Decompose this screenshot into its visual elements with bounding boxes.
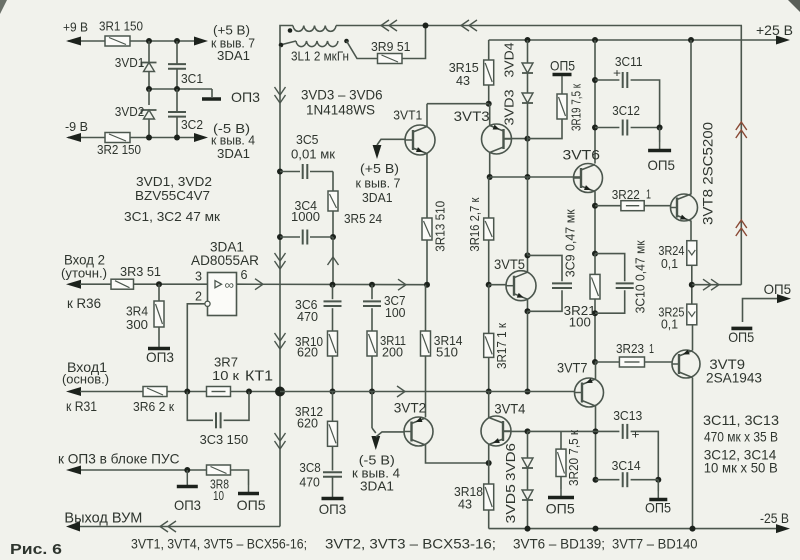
wire 3R17 leads [486, 285, 492, 395]
wire 3VD5 down [527, 500, 529, 529]
svg-text:к R36: к R36 [67, 295, 101, 311]
label OP3 under 3R4 [146, 349, 174, 365]
resistor 3R2 [105, 133, 130, 143]
wire 3R24 to out node [689, 265, 695, 304]
terminal arrow Vhod2 [66, 280, 81, 289]
svg-text:(основ.): (основ.) [62, 372, 109, 387]
wire 3VT5 emitter [525, 299, 531, 314]
label 3R22 [612, 187, 640, 202]
label 3C11 [615, 54, 643, 69]
label OP5 top [550, 58, 575, 74]
svg-text:3VT3: 3VT3 [454, 108, 490, 124]
wire mid node row [146, 86, 212, 92]
label 3R12 [295, 404, 323, 419]
resistor 3R12 [328, 421, 338, 446]
wire 3VT1 base to +5V [377, 139, 405, 145]
node 3C6 [330, 282, 336, 288]
wire zener column upper [148, 41, 150, 62]
wire 3VT3 emitter up [0, 0, 1, 1]
svg-text:43: 43 [458, 496, 472, 511]
diode 3VD4 [522, 63, 533, 73]
label 3R16 rot [467, 197, 482, 251]
svg-text:3VT2, 3VT3 – BCX53-16;: 3VT2, 3VT3 – BCX53-16; [325, 537, 496, 552]
label 3R6 2k [133, 399, 174, 414]
svg-text:3DA1: 3DA1 [217, 48, 250, 63]
svg-text:+9 В: +9 В [63, 20, 88, 35]
label k vyv 4 low [352, 466, 400, 481]
label 3C14 [612, 458, 641, 473]
label 3C8 [299, 460, 320, 475]
wire node to signal line [332, 237, 334, 285]
label OP5 under bar [728, 329, 754, 345]
wire bias row y177 [490, 176, 574, 178]
label 3R10 [295, 334, 323, 349]
wire node to 3R4 [158, 284, 160, 301]
transistor 3VT9 [672, 350, 700, 378]
svg-text:2SA1943: 2SA1943 [706, 370, 762, 386]
capacitor 3C5 [303, 164, 308, 179]
resistor 3R8 [207, 465, 231, 475]
svg-text:3VT2: 3VT2 [394, 400, 427, 416]
svg-text:3С5: 3С5 [296, 132, 319, 147]
wire 3VT7 collector [595, 362, 597, 379]
chevrons out vert 1 [736, 122, 747, 138]
svg-text:(уточн.): (уточн.) [61, 266, 107, 281]
svg-text:3VD2: 3VD2 [115, 104, 145, 119]
zener 3VD2 [142, 110, 157, 119]
wire 3C5 branch [280, 171, 333, 173]
wire x527 mid column [525, 177, 531, 395]
chevrons out vert 2 [736, 220, 747, 236]
resistor 3R3 [111, 279, 134, 289]
label (+5V) mid [360, 161, 399, 176]
label 3VT8 2SC5200 rot [701, 122, 716, 225]
svg-text:3VT1, 3VT4, 3VT5 – BCX56-16;: 3VT1, 3VT4, 3VT5 – BCX56-16; [131, 537, 307, 552]
svg-text:3R9 51: 3R9 51 [371, 39, 411, 54]
label 43 [456, 73, 470, 88]
label OP5 3C12 [648, 157, 676, 173]
svg-text:10 к: 10 к [212, 368, 239, 383]
label 10k [212, 368, 239, 383]
wire Vyhod VUM [80, 526, 280, 528]
wire 3R18 to bottom rail [488, 510, 490, 529]
wire 3R8 to gnd OP5 [231, 470, 249, 485]
svg-text:ОП5: ОП5 [728, 329, 754, 345]
svg-text:AD8055AR: AD8055AR [191, 252, 259, 268]
wire opamp output [237, 283, 426, 286]
wire node to 3R18 [488, 463, 490, 484]
svg-text:3С12: 3С12 [612, 103, 640, 118]
diode 3VD5 [522, 490, 533, 500]
capacitor 3C12 branch [595, 120, 663, 136]
label 3C8 value [299, 474, 320, 489]
transistor 3VT2 [404, 417, 433, 446]
pin 2 label [195, 289, 202, 304]
caption seg2 [325, 537, 496, 552]
resistor 3R1 [105, 36, 130, 46]
wire 3C14 to gnd [657, 480, 659, 491]
terminal arrow +25V [776, 36, 790, 45]
svg-text:BZV55C4V7: BZV55C4V7 [135, 188, 210, 203]
wire 3C2 leads [176, 89, 178, 138]
label 3C1 3C2 47mk [124, 209, 220, 224]
svg-text:3L1 2 мкГн: 3L1 2 мкГн [291, 49, 349, 64]
wire 3R4 to gnd [158, 327, 160, 340]
wire 3R15 top [488, 40, 490, 60]
svg-text:к R31: к R31 [66, 398, 97, 414]
label 3R24 [658, 243, 684, 258]
chevron up 3R5 leg [328, 257, 339, 265]
label Ris 6 [10, 542, 62, 558]
svg-text:3VD3 – 3VD6: 3VD3 – 3VD6 [301, 87, 383, 103]
terminal arrow +9V [66, 37, 81, 46]
pin 3 label [195, 269, 202, 284]
svg-text:1: 1 [649, 341, 654, 356]
wire x595 mid column [592, 254, 598, 365]
label 3C9 rot [563, 209, 578, 277]
label 3R3 51 [120, 264, 161, 279]
op-amp 3DA1 body [208, 273, 237, 316]
label 3C12 [612, 103, 640, 118]
wire 3C12 to gnd [659, 128, 661, 143]
wire 3VD4-3VD3 [527, 73, 529, 93]
svg-text:3С8: 3С8 [299, 460, 320, 475]
wire 3R20 to gnd [560, 477, 562, 490]
wire 3R3 to pin3 [134, 281, 208, 287]
wire pin2 to feedback node [187, 304, 205, 392]
svg-text:+25 В: +25 В [756, 22, 793, 38]
resistor 3R22 [621, 201, 644, 211]
label k vyv.4 [211, 133, 255, 148]
label OP3 PUS [174, 497, 201, 513]
label 3R1 150 [99, 19, 143, 34]
label 3R14 [434, 333, 463, 348]
label 3C13 [613, 408, 642, 423]
wire 3VT7 emitter [593, 406, 599, 483]
svg-text:620: 620 [297, 416, 318, 431]
wire 3C8 to gnd [332, 477, 334, 490]
node 3C7 [369, 282, 375, 288]
wire 3VT2 emitter to node [426, 445, 492, 466]
ground OP5 under 3R8 [238, 485, 259, 494]
wire 3R10 to midrail [330, 356, 336, 395]
label k OP3 v bloke PUS [58, 451, 180, 467]
label 3VT5 [494, 256, 525, 272]
resistor 3R6 [143, 387, 167, 397]
svg-text:2: 2 [195, 289, 202, 304]
label 3L1 2mkGn [291, 49, 349, 64]
capacitor 3C6 [324, 285, 342, 331]
wire k OP3 PUS [80, 467, 207, 473]
label 3R13 510 rot [433, 201, 448, 252]
wire feedback column [279, 46, 281, 527]
chevrons top rail left [381, 20, 397, 31]
capacitor 3C3 bypass [187, 392, 249, 429]
svg-text:3R17 1 к: 3R17 1 к [494, 323, 509, 369]
wire 3R9 to rail [402, 23, 429, 59]
label BZV55C4V7 [135, 188, 210, 203]
label -25V [760, 510, 789, 526]
resistor 3R21 [590, 274, 600, 299]
transistor 3VT8 [671, 194, 698, 221]
label 3VD2 [115, 104, 145, 119]
capacitor 3C7 [363, 285, 381, 331]
wire signal to 3VT5 base [489, 284, 507, 286]
pin2 inverting bubble [205, 301, 210, 306]
wire 3VT4 base lead [503, 428, 531, 434]
label 3R11 [380, 333, 406, 348]
label OP5 out terminal [764, 281, 792, 297]
svg-text:ОП5: ОП5 [645, 500, 671, 516]
svg-text:10: 10 [213, 488, 224, 503]
label 470mk35V [704, 429, 778, 445]
svg-text:43: 43 [456, 73, 470, 88]
label osnov [62, 372, 109, 387]
svg-text:100: 100 [569, 315, 591, 330]
label 3C7 [384, 293, 406, 308]
label OP3 3C8 [319, 501, 347, 517]
ground OP3 top [202, 89, 221, 99]
wire output vertical [740, 26, 743, 285]
label + 3C13 [632, 428, 640, 442]
svg-text:3VD4: 3VD4 [501, 43, 516, 78]
svg-text:470: 470 [297, 309, 318, 324]
label 3VD6 rot [503, 443, 518, 481]
label 3R25 value [661, 317, 678, 332]
inductor 3L1 winding A [288, 26, 336, 33]
svg-text:ОП5: ОП5 [237, 497, 266, 513]
label k vyv7 mid [356, 176, 401, 191]
label 3R18 [454, 484, 483, 499]
node 3C5 tap [277, 169, 283, 175]
capacitor 3C4 [303, 230, 308, 245]
svg-text:КТ1: КТ1 [245, 369, 273, 385]
resistor 3R25 [687, 304, 697, 325]
caption seg1 [131, 537, 307, 552]
wire mid rail right [280, 391, 575, 393]
zener 3VD1 [142, 63, 157, 72]
chevrons feedback 1 [275, 87, 286, 103]
label 3C7 value [385, 305, 406, 320]
label k vyv.7 [211, 36, 255, 51]
resistor 3R18 [484, 484, 494, 510]
svg-text:100: 100 [385, 305, 406, 320]
wire 3VT3 base [489, 104, 491, 126]
svg-text:(+5 В): (+5 В) [360, 161, 399, 176]
resistor 3R5 [328, 191, 338, 211]
svg-text:3С1, 3С2 47 мк: 3С1, 3С2 47 мк [124, 209, 220, 224]
label 3VD1 3VD2 [136, 174, 212, 189]
diode 3VD6 [522, 458, 533, 468]
terminal arrow +5V to pin7 [194, 37, 208, 46]
svg-text:ОП3: ОП3 [319, 501, 347, 517]
label 3VD5 rot [503, 484, 518, 524]
label +25V [756, 22, 793, 38]
wire 3VT6 base lead [574, 176, 582, 178]
inductor 3L1 winding B [279, 39, 349, 48]
wire 3VT5 collector [525, 252, 531, 272]
label (-5V) low [359, 453, 395, 468]
terminal arrow -9V [66, 133, 81, 142]
label OP5 3R8 [237, 497, 266, 513]
terminal arrow Vhod1 [66, 387, 81, 396]
svg-text:3R1 150: 3R1 150 [99, 19, 143, 34]
label OP3 top [231, 89, 260, 105]
label AD8055AR [191, 252, 259, 268]
transistor 3VT6 [574, 164, 603, 193]
label 3R7 [214, 355, 238, 370]
svg-text:3R20 7,5 к: 3R20 7,5 к [566, 430, 581, 486]
resistor 3R19 [557, 94, 567, 119]
svg-text:ОП3: ОП3 [174, 497, 201, 513]
svg-text:3VT6: 3VT6 [563, 147, 601, 163]
label 3VT6 [563, 147, 601, 163]
label 3R20 rot [566, 430, 581, 486]
wire zener column lower [148, 89, 150, 105]
chevrons top rail right [461, 20, 477, 31]
label OP5 3R20 [546, 500, 575, 516]
svg-text:3DA1: 3DA1 [217, 146, 250, 161]
label 3VT2 [394, 400, 427, 416]
chevron opamp out [255, 279, 263, 290]
wire diode col low top [527, 431, 529, 458]
wire 3R20 link [560, 431, 562, 449]
wire 3R16 leads [486, 177, 492, 288]
node 3C4 tap [277, 234, 283, 240]
wire 3R23 to 3VT9 base [645, 361, 673, 363]
resistor 3R16 [484, 218, 494, 240]
wire 3VT3 collector down [487, 153, 493, 181]
wire 3R1 to +5V arrow [130, 38, 196, 44]
svg-text:3DA1: 3DA1 [360, 479, 394, 494]
label 3VT1 [393, 108, 422, 123]
transistor 3VT1 [405, 125, 435, 155]
label Vhod 1 [67, 359, 107, 375]
svg-text:3R19 7,5 к: 3R19 7,5 к [568, 84, 583, 131]
resistor 3R14 [421, 331, 431, 356]
label 3R24 value [661, 256, 678, 271]
wire 3VD3 down [525, 103, 531, 180]
wire 3VD1 to mid node [148, 72, 150, 90]
svg-text:3VD3: 3VD3 [501, 90, 516, 126]
wire signal chevron [398, 279, 406, 290]
label 0.01mk [291, 147, 335, 162]
wire 3C1 leads [176, 41, 178, 89]
label 3C6 [295, 297, 318, 312]
label 3R10 value [297, 345, 318, 360]
transistor 3VT7 [575, 378, 604, 407]
svg-text:620: 620 [297, 345, 318, 360]
wire 3R19 link [528, 119, 563, 139]
svg-text:ОП5: ОП5 [648, 157, 676, 173]
wire 3R11 node to -5V arrow [372, 392, 376, 434]
svg-text:3R5 24: 3R5 24 [344, 211, 382, 226]
label 3R19 rot [568, 84, 583, 131]
capacitor 3C2 [168, 112, 186, 117]
wire -25V bottom rail [489, 526, 777, 532]
svg-text:3R23: 3R23 [616, 341, 644, 356]
svg-text:510: 510 [436, 345, 458, 360]
label 3C5 [296, 132, 319, 147]
wire 3C4 branch [280, 236, 333, 238]
resistor 3R15 [484, 60, 494, 85]
svg-text:3R22: 3R22 [612, 187, 640, 202]
label +9V [63, 20, 88, 35]
svg-text:3R6 2 к: 3R6 2 к [133, 399, 174, 414]
terminal arrow VUM [66, 522, 80, 532]
diode 3VD3 [522, 93, 533, 103]
label 3DA1 low [360, 479, 394, 494]
capacitor 3C8 [323, 472, 342, 477]
wire 3VT9 collector down [692, 378, 694, 529]
label 3R12 value [297, 416, 318, 431]
label 3C4 [295, 198, 318, 213]
label 3DA1 [217, 48, 250, 63]
svg-text:3С11: 3С11 [615, 54, 643, 69]
svg-text:3R3 51: 3R3 51 [120, 264, 161, 279]
svg-text:к ОП3 в блоке ПУС: к ОП3 в блоке ПУС [58, 451, 180, 467]
svg-text:3VT7: 3VT7 [557, 359, 588, 375]
wire 3VT1 emitter to 3R13 [426, 154, 428, 219]
svg-text:3С11, 3С13: 3С11, 3С13 [703, 412, 779, 428]
resistor 3R13 [422, 218, 432, 240]
svg-text:3VT1: 3VT1 [393, 108, 422, 123]
wire 3R13 to signal line [424, 240, 430, 288]
svg-text:1N4148WS: 1N4148WS [306, 102, 375, 118]
svg-text:3С14: 3С14 [612, 458, 641, 473]
pin 6 label [241, 267, 248, 282]
svg-text:3VT8 2SC5200: 3VT8 2SC5200 [701, 122, 716, 225]
wire -9V input [68, 137, 105, 139]
wire out node to output line [692, 284, 742, 286]
svg-text:ОП5: ОП5 [764, 281, 792, 297]
label 3R11 value [382, 345, 403, 360]
ground OP5 under 3C12 [648, 142, 671, 151]
svg-text:3С1: 3С1 [181, 71, 203, 86]
capacitor 3C1 [168, 64, 186, 69]
chevrons feedback 2 [275, 253, 286, 269]
label 3R25 [658, 305, 684, 320]
svg-text:1: 1 [646, 187, 651, 202]
svg-text:3VD5: 3VD5 [503, 484, 518, 524]
label 3VT7 [557, 359, 588, 375]
resistor 3R11 [367, 331, 377, 356]
wire 3R15 to node [486, 85, 492, 107]
label -9V [65, 119, 88, 134]
resistor 3R4 [154, 301, 164, 327]
svg-text:0,1: 0,1 [661, 317, 678, 332]
svg-text:ОП3: ОП3 [146, 349, 174, 365]
wire diode column top [527, 40, 529, 63]
label 3R17 rot [494, 323, 509, 369]
terminal OP5 output [743, 294, 792, 322]
capacitor 3C14 branch [596, 472, 659, 487]
label 3R5 24 [344, 211, 382, 226]
wire 3VT9 emitter up [692, 325, 694, 351]
wire 3R22 to 3VT8 base [644, 205, 670, 207]
svg-text:Рис. 6: Рис. 6 [10, 542, 62, 558]
svg-text:3VT5: 3VT5 [494, 256, 525, 272]
svg-text:-25 В: -25 В [760, 510, 789, 526]
chevrons output [703, 279, 719, 290]
svg-text:6: 6 [241, 267, 248, 282]
svg-text:3С9 0,47 мк: 3С9 0,47 мк [563, 209, 578, 277]
ground OP5 output [731, 327, 752, 331]
svg-text:1000: 1000 [291, 209, 320, 224]
label k R31 [66, 398, 97, 414]
svg-text:3VT4: 3VT4 [494, 401, 525, 417]
label Vhod 2 [64, 252, 105, 268]
